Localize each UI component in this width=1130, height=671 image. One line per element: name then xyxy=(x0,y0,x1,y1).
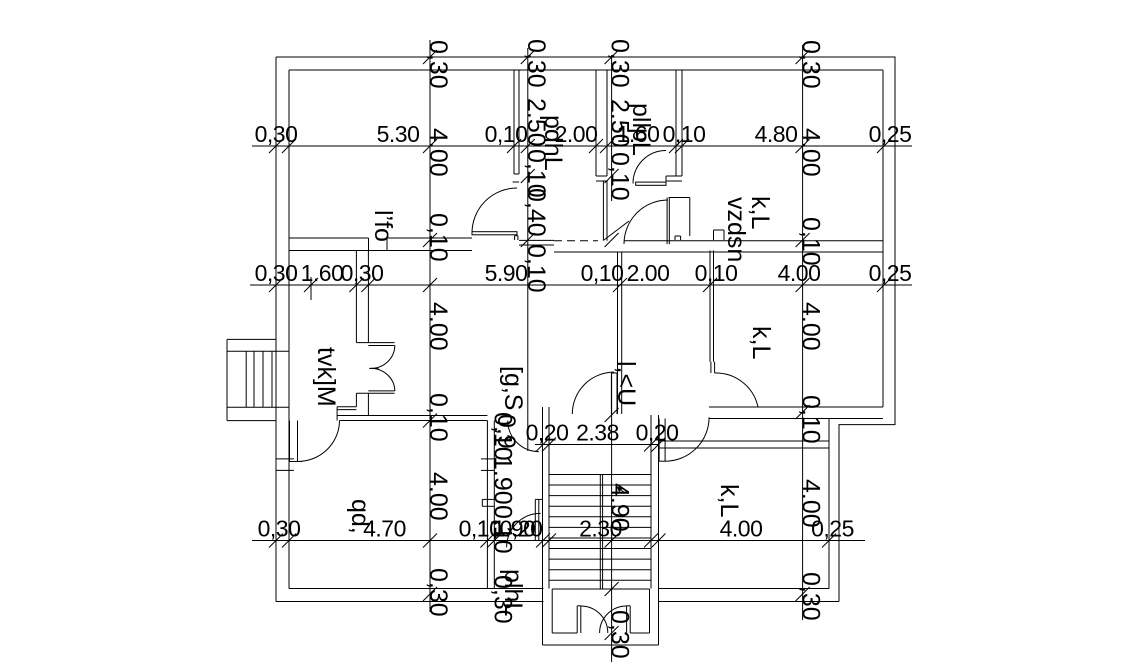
svg-text:0,25: 0,25 xyxy=(869,260,912,286)
svg-text:0,10: 0,10 xyxy=(424,213,452,262)
svg-text:0,30: 0,30 xyxy=(255,260,298,286)
svg-text:0,10: 0,10 xyxy=(581,260,624,286)
svg-text:qd,: qd, xyxy=(346,499,374,534)
svg-text:k,L: k,L xyxy=(746,196,774,229)
svg-text:0,30: 0,30 xyxy=(606,610,634,659)
svg-text:0,40: 0,40 xyxy=(522,188,550,237)
svg-text:l,<U: l,<U xyxy=(612,361,640,406)
svg-text:0,30: 0,30 xyxy=(258,516,301,542)
svg-text:0,30: 0,30 xyxy=(606,39,634,88)
svg-text:0,20: 0,20 xyxy=(636,420,679,446)
svg-text:0,10: 0,10 xyxy=(488,412,516,461)
svg-text:4.00: 4.00 xyxy=(424,472,452,521)
svg-text:0,10: 0,10 xyxy=(522,244,550,293)
svg-text:0,10: 0,10 xyxy=(797,217,825,266)
svg-text:4.80: 4.80 xyxy=(755,121,798,147)
svg-text:0,10: 0,10 xyxy=(424,393,452,442)
svg-text:0,30: 0,30 xyxy=(255,121,298,147)
svg-text:1.90: 1.90 xyxy=(488,456,516,505)
svg-text:0,10: 0,10 xyxy=(663,121,706,147)
svg-text:tvk]M: tvk]M xyxy=(312,347,340,407)
svg-text:0,30: 0,30 xyxy=(424,40,452,89)
svg-text:k,L: k,L xyxy=(747,326,775,359)
svg-text:0,10: 0,10 xyxy=(485,121,528,147)
svg-text:4.90: 4.90 xyxy=(606,483,634,532)
svg-text:4.00: 4.00 xyxy=(720,516,763,542)
svg-text:0,20: 0,20 xyxy=(526,420,569,446)
svg-text:0,30: 0,30 xyxy=(522,39,550,88)
svg-text:vzdsn: vzdsn xyxy=(722,197,750,262)
svg-text:0,10: 0,10 xyxy=(606,152,634,201)
svg-text:0,10: 0,10 xyxy=(695,260,738,286)
svg-text:2.38: 2.38 xyxy=(576,420,619,446)
svg-text:5.90: 5.90 xyxy=(485,260,528,286)
svg-text:0,30: 0,30 xyxy=(797,572,825,621)
svg-text:k,L: k,L xyxy=(715,484,743,517)
svg-text:[g,S: [g,S xyxy=(499,366,527,410)
svg-text:pdhL: pdhL xyxy=(539,115,567,171)
svg-text:pllpL: pllpL xyxy=(627,103,655,156)
svg-text:plhL: plhL xyxy=(499,569,527,616)
svg-text:1.60: 1.60 xyxy=(301,260,344,286)
svg-text:0,10: 0,10 xyxy=(797,395,825,444)
svg-text:4.00: 4.00 xyxy=(797,479,825,528)
svg-text:l’fo: l’fo xyxy=(369,210,397,242)
svg-text:4.00: 4.00 xyxy=(424,302,452,351)
svg-text:0,30: 0,30 xyxy=(424,568,452,617)
svg-text:0,25: 0,25 xyxy=(869,121,912,147)
svg-text:0,30: 0,30 xyxy=(797,40,825,89)
svg-text:0,30: 0,30 xyxy=(341,260,384,286)
svg-text:2.00: 2.00 xyxy=(627,260,670,286)
svg-text:0,10: 0,10 xyxy=(488,505,516,554)
svg-text:4.00: 4.00 xyxy=(797,302,825,351)
svg-text:5.30: 5.30 xyxy=(377,121,420,147)
svg-text:4.00: 4.00 xyxy=(424,128,452,177)
svg-text:4.00: 4.00 xyxy=(797,128,825,177)
